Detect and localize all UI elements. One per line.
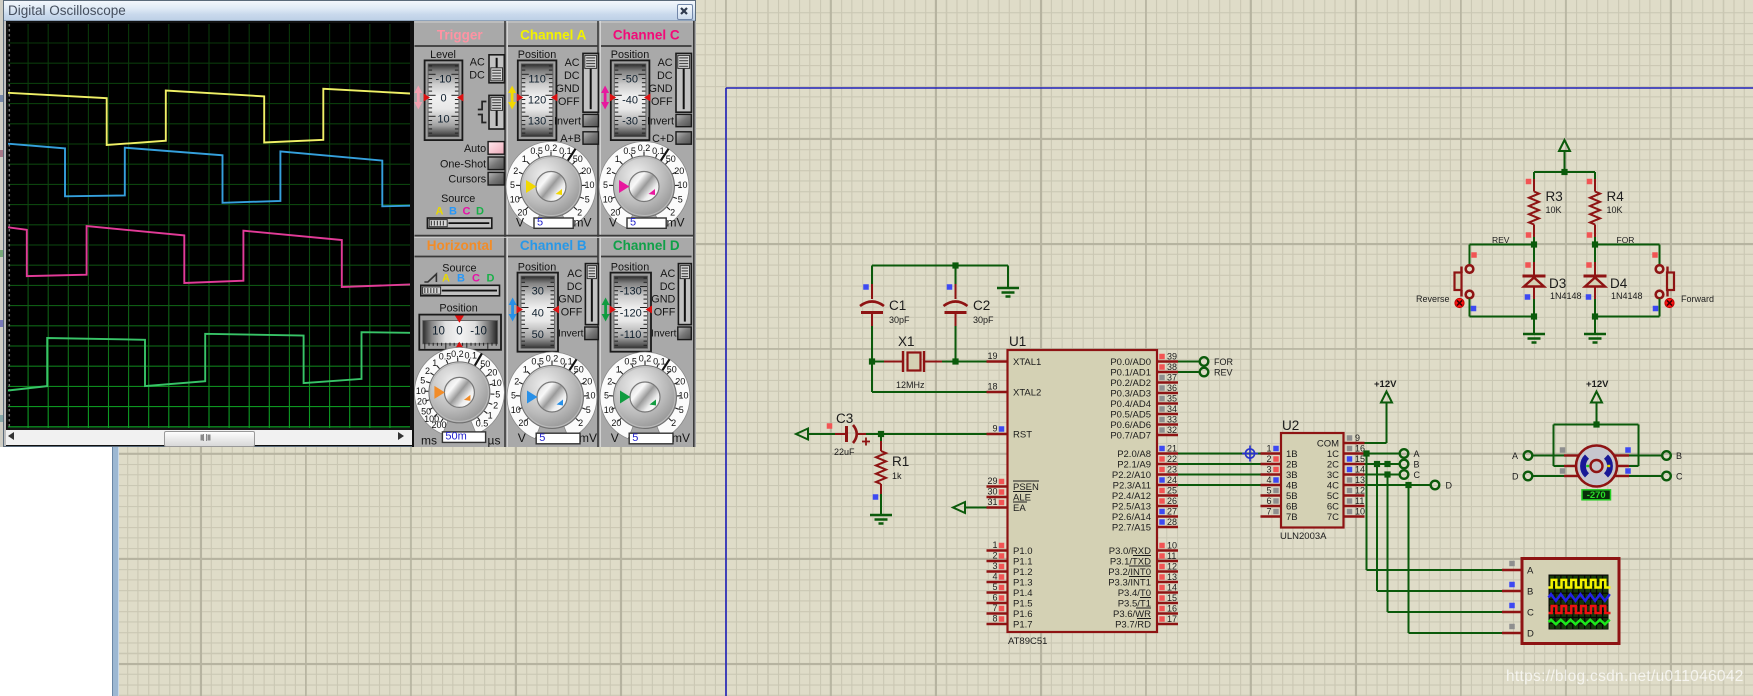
svg-text:14: 14 — [1355, 465, 1365, 475]
svg-text:13: 13 — [1167, 572, 1177, 582]
svg-text:7C: 7C — [1327, 512, 1339, 523]
svg-text:2: 2 — [1266, 454, 1271, 464]
capacitor C3 22uF — [827, 411, 870, 457]
power +12V (motor) — [1554, 379, 1639, 466]
U1 pin 2 P1.1 — [987, 551, 1033, 568]
svg-text:COM: COM — [1317, 439, 1339, 450]
svg-text:24: 24 — [1167, 475, 1177, 485]
svg-text:5: 5 — [992, 582, 997, 592]
svg-text:-120: -120 — [620, 307, 642, 319]
svg-text:D: D — [1527, 629, 1534, 640]
U2 pin 11 6C — [1327, 496, 1365, 513]
input terminal (EA arrow) — [953, 502, 965, 513]
svg-text:REV: REV — [1214, 368, 1233, 378]
wire Forward to FOR — [0, 0, 1, 1]
svg-text:P1.4: P1.4 — [1013, 588, 1033, 599]
svg-text:1: 1 — [488, 411, 493, 421]
input terminal (RST left arrow) — [796, 429, 808, 440]
terminal REV — [1200, 368, 1233, 378]
wire XTAL2 — [872, 362, 987, 393]
U2 pin 15 2C — [1327, 454, 1365, 471]
svg-text:EA: EA — [1013, 503, 1026, 514]
svg-text:10: 10 — [511, 405, 521, 415]
svg-text:20: 20 — [675, 376, 685, 386]
U1 pin 22 P2.1/A9 — [1117, 454, 1178, 471]
svg-text:A: A — [1414, 449, 1420, 459]
svg-text:20: 20 — [417, 397, 427, 407]
svg-text:Position: Position — [518, 49, 556, 61]
U1 pin 27 P2.6/A14 — [1112, 507, 1178, 524]
svg-text:XTAL2: XTAL2 — [1013, 388, 1041, 399]
wire C to graph — [1388, 475, 1503, 613]
svg-text:D3: D3 — [1549, 276, 1566, 291]
svg-text:10: 10 — [603, 195, 613, 205]
svg-text:0.5: 0.5 — [624, 356, 637, 366]
terminal D (motor) — [1512, 472, 1564, 482]
svg-text:AC: AC — [470, 57, 485, 69]
svg-text:5B: 5B — [1286, 491, 1298, 502]
svg-text:10: 10 — [432, 326, 445, 338]
svg-text:11: 11 — [1355, 496, 1364, 506]
svg-text:-10: -10 — [470, 326, 487, 338]
svg-text:2: 2 — [493, 401, 498, 411]
wire 4C to D — [1365, 482, 1431, 488]
U2 pin 5 5B — [1261, 486, 1298, 503]
svg-text:+12V: +12V — [1586, 379, 1609, 390]
svg-text:Source: Source — [441, 193, 475, 205]
svg-text:P1.5: P1.5 — [1013, 599, 1033, 610]
svg-text:+12V: +12V — [1374, 379, 1397, 390]
U1 pin 38 P0.1/AD1 — [1110, 362, 1178, 379]
svg-text:V: V — [611, 431, 619, 445]
svg-text:1: 1 — [992, 540, 997, 550]
svg-text:2: 2 — [606, 166, 611, 176]
svg-text:OFF: OFF — [654, 306, 676, 318]
svg-text:0.5: 0.5 — [531, 356, 544, 366]
U1 pin 21 P2.0/A8 — [1117, 444, 1178, 461]
wire FOR — [1178, 361, 1200, 363]
svg-text:15: 15 — [1167, 593, 1177, 603]
U1 pin 12 P3.2/INT0 — [1108, 562, 1178, 579]
svg-text:P0.3/AD3: P0.3/AD3 — [1110, 389, 1151, 400]
U1 pin 1 P1.0 — [987, 540, 1033, 557]
svg-text:12: 12 — [1355, 486, 1365, 496]
wire P2.3 to U2 4B — [1178, 484, 1261, 486]
svg-text:2: 2 — [578, 418, 583, 428]
svg-text:19: 19 — [987, 351, 997, 361]
svg-text:130: 130 — [528, 115, 546, 127]
U1 pin 14 P3.4/T0 — [1118, 583, 1178, 600]
svg-text:0.1: 0.1 — [653, 356, 666, 366]
svg-text:2B: 2B — [1286, 460, 1298, 471]
svg-text:P2.7/A15: P2.7/A15 — [1112, 523, 1151, 534]
svg-text:Channel B: Channel B — [520, 238, 587, 253]
svg-text:7: 7 — [1266, 507, 1271, 517]
svg-text:Invert: Invert — [647, 116, 674, 128]
U1 pin 29 PSEN — [987, 476, 1040, 493]
svg-text:5: 5 — [604, 391, 609, 401]
U1 pin 33 P0.6/AD6 — [1110, 415, 1178, 432]
svg-text:13: 13 — [1355, 475, 1365, 485]
U1 pin 32 P0.7/AD7 — [1110, 425, 1178, 442]
svg-text:R4: R4 — [1607, 189, 1625, 204]
svg-text:39: 39 — [1167, 352, 1177, 362]
svg-text:33: 33 — [1167, 415, 1177, 425]
svg-text:18: 18 — [987, 382, 997, 392]
svg-text:Invert: Invert — [554, 116, 581, 128]
svg-text:AC: AC — [658, 57, 673, 69]
svg-text:5: 5 — [1266, 486, 1271, 496]
ground (R1) — [870, 515, 892, 524]
svg-text:26: 26 — [1167, 496, 1177, 506]
svg-text:B: B — [457, 273, 465, 285]
svg-text:10: 10 — [510, 195, 520, 205]
wire P2.2 to U2 3B — [1178, 474, 1261, 476]
svg-text:10: 10 — [1355, 507, 1365, 517]
svg-text:11: 11 — [1167, 551, 1176, 561]
svg-text:1B: 1B — [1286, 449, 1298, 460]
svg-text:C: C — [472, 273, 480, 285]
svg-text:C: C — [1527, 608, 1534, 619]
U1 pin 6 P1.5 — [987, 593, 1033, 610]
diode D3 1N4148 — [1523, 245, 1582, 317]
svg-text:1N4148: 1N4148 — [1611, 291, 1643, 301]
svg-text:5: 5 — [632, 432, 638, 444]
svg-text:30: 30 — [532, 286, 544, 298]
svg-text:AC: AC — [565, 57, 580, 69]
svg-text:50: 50 — [421, 407, 431, 417]
oscilloscope screen — [6, 21, 412, 429]
svg-text:6: 6 — [1266, 496, 1271, 506]
U1 pin 15 P3.5/T1 — [1118, 593, 1178, 610]
svg-text:Invert: Invert — [651, 329, 677, 340]
motor MOTOR-STEPPER — [1560, 446, 1631, 487]
svg-text:P3.7/RD: P3.7/RD — [1115, 620, 1151, 631]
svg-text:P2.1/A9: P2.1/A9 — [1117, 460, 1151, 471]
oscilloscope component (4-channel graph) — [1502, 559, 1619, 644]
svg-text:D4: D4 — [1610, 276, 1628, 291]
svg-text:12MHz: 12MHz — [896, 380, 925, 390]
wire RST-left — [808, 433, 835, 435]
svg-text:GND: GND — [558, 294, 582, 306]
svg-text:23: 23 — [1167, 465, 1177, 475]
svg-text:5: 5 — [586, 405, 591, 415]
Digital Oscilloscope window — [0, 447, 113, 696]
svg-text:20: 20 — [674, 166, 684, 176]
svg-text:GND: GND — [556, 83, 580, 95]
svg-text:0.1: 0.1 — [559, 146, 572, 156]
svg-text:38: 38 — [1167, 362, 1177, 372]
U1 pin 30 ALE — [987, 487, 1033, 504]
svg-text:2: 2 — [514, 376, 519, 386]
wire XTAL1 — [956, 361, 988, 363]
svg-text:3: 3 — [1266, 465, 1271, 475]
svg-text:A: A — [442, 273, 450, 285]
U1 pin 17 P3.7/RD — [1115, 614, 1178, 631]
svg-text:5: 5 — [510, 180, 515, 190]
svg-text:10: 10 — [1167, 541, 1177, 551]
svg-text:A: A — [1512, 451, 1518, 461]
terminal D — [1431, 481, 1453, 491]
svg-text:DC: DC — [567, 281, 583, 293]
resistor R1 1k — [873, 434, 910, 515]
U1 pin 23 P2.2/A10 — [1112, 465, 1178, 482]
svg-text:5C: 5C — [1327, 491, 1339, 502]
svg-text:-110: -110 — [620, 329, 641, 341]
power +12V (U2 COM) — [1365, 379, 1398, 443]
U1 pin 8 P1.7 — [987, 614, 1033, 631]
svg-text:1C: 1C — [1327, 449, 1339, 460]
svg-text:37: 37 — [1167, 373, 1177, 383]
svg-text:C: C — [1676, 472, 1683, 482]
wire 3C to C — [1365, 471, 1400, 477]
svg-text:110: 110 — [528, 74, 546, 86]
U1 pin 36 P0.3/AD3 — [1110, 383, 1178, 400]
svg-text:21: 21 — [1167, 444, 1177, 454]
svg-text:27: 27 — [1167, 507, 1177, 517]
svg-text:12: 12 — [1167, 562, 1177, 572]
svg-text:C: C — [463, 206, 471, 218]
svg-text:Channel C: Channel C — [613, 28, 680, 43]
diode D4 1N4148 — [1584, 245, 1643, 317]
svg-text:V: V — [609, 216, 617, 230]
svg-text:ms: ms — [421, 434, 437, 448]
svg-text:B: B — [1676, 451, 1682, 461]
crystal X1 — [869, 334, 959, 390]
svg-text:P1.6: P1.6 — [1013, 609, 1033, 620]
svg-text:1: 1 — [615, 154, 620, 164]
capacitor C2 — [944, 266, 995, 362]
svg-text:4: 4 — [1266, 475, 1271, 485]
svg-text:5: 5 — [495, 389, 500, 399]
svg-text:P1.1: P1.1 — [1013, 557, 1033, 568]
svg-text:4B: 4B — [1286, 481, 1298, 492]
svg-text:2: 2 — [992, 551, 997, 561]
svg-text:AC: AC — [660, 268, 675, 280]
U1 pin 7 P1.6 — [987, 603, 1033, 620]
svg-text:P2.3/A11: P2.3/A11 — [1113, 481, 1151, 492]
svg-text:5: 5 — [678, 195, 683, 205]
U2 pin 4 4B — [1261, 475, 1298, 492]
svg-text:5: 5 — [539, 432, 545, 444]
svg-text:U2: U2 — [1282, 418, 1299, 433]
svg-text:Trigger: Trigger — [437, 28, 484, 43]
svg-text:1N4148: 1N4148 — [1550, 291, 1582, 301]
svg-text:10: 10 — [604, 405, 614, 415]
motor position display -270 — [1582, 490, 1611, 501]
wire REV node — [1470, 241, 1538, 247]
svg-text:RST: RST — [1013, 430, 1032, 441]
svg-text:R1: R1 — [892, 454, 909, 469]
U2 pin 16 1C — [1327, 444, 1365, 461]
svg-text:-130: -130 — [620, 286, 642, 298]
svg-text:Invert: Invert — [558, 329, 584, 340]
svg-text:10K: 10K — [1546, 205, 1562, 215]
svg-text:P0.7/AD7: P0.7/AD7 — [1110, 431, 1151, 442]
resistor R3 10K — [1526, 172, 1563, 245]
svg-text:28: 28 — [1167, 517, 1177, 527]
svg-text:P2.2/A10: P2.2/A10 — [1112, 470, 1151, 481]
svg-text:AC: AC — [567, 268, 582, 280]
svg-text:50: 50 — [532, 329, 544, 341]
svg-text:2: 2 — [513, 166, 518, 176]
svg-text:D: D — [1512, 472, 1519, 482]
svg-text:1: 1 — [522, 154, 527, 164]
svg-text:5: 5 — [585, 195, 590, 205]
svg-text:-270: -270 — [1587, 490, 1606, 501]
svg-text:DC: DC — [564, 70, 580, 82]
svg-text:35: 35 — [1167, 394, 1177, 404]
wire FOR ground rail — [1592, 313, 1660, 334]
svg-text:14: 14 — [1167, 583, 1177, 593]
svg-text:GND: GND — [649, 83, 673, 95]
U2 pin 12 5C — [1327, 486, 1365, 503]
svg-text:ULN2003A: ULN2003A — [1280, 531, 1327, 542]
svg-text:P2.0/A8: P2.0/A8 — [1117, 449, 1151, 460]
Channel D panel — [412, 21, 696, 447]
svg-text:FOR: FOR — [1214, 357, 1233, 367]
U1 pin 3 P1.2 — [987, 561, 1033, 578]
U1 pin 26 P2.5/A13 — [1112, 496, 1178, 513]
U1 pin 10 P3.0/RXD — [1109, 541, 1178, 558]
svg-text:9: 9 — [1355, 433, 1360, 443]
svg-text:C: C — [1414, 470, 1421, 480]
svg-text:V: V — [518, 431, 526, 445]
U2 pin 2 2B — [1261, 454, 1298, 471]
svg-text:Horizontal: Horizontal — [427, 238, 493, 253]
svg-text:20: 20 — [581, 166, 591, 176]
svg-text:9: 9 — [992, 424, 997, 434]
U1 pin 24 P2.3/A11 — [1113, 475, 1178, 492]
svg-text:22: 22 — [1167, 454, 1177, 464]
svg-text:10: 10 — [492, 378, 502, 388]
svg-text:P0.6/AD6: P0.6/AD6 — [1110, 420, 1151, 431]
svg-text:P0.5/AD5: P0.5/AD5 — [1110, 410, 1151, 421]
svg-text:OFF: OFF — [651, 96, 673, 108]
svg-text:OFF: OFF — [561, 306, 583, 318]
svg-text:B: B — [449, 206, 457, 218]
svg-text:0.1: 0.1 — [652, 146, 665, 156]
svg-text:Position: Position — [611, 49, 649, 61]
origin marker (crosshair) — [1242, 446, 1258, 462]
sheet border (blue) — [726, 88, 1753, 696]
svg-text:OFF: OFF — [558, 96, 580, 108]
U1 pin 31 EA — [987, 497, 1028, 514]
svg-text:7: 7 — [992, 603, 997, 613]
svg-text:1k: 1k — [892, 471, 902, 481]
svg-text:C2: C2 — [973, 298, 990, 313]
terminal FOR — [1200, 357, 1234, 367]
svg-text:4C: 4C — [1327, 481, 1339, 492]
button Reverse — [1416, 245, 1477, 317]
wire REV — [1178, 371, 1200, 373]
svg-text:Channel A: Channel A — [520, 28, 587, 43]
svg-text:1: 1 — [1266, 444, 1271, 454]
svg-text:3B: 3B — [1286, 470, 1298, 481]
svg-text:6B: 6B — [1286, 502, 1298, 513]
svg-text:30pF: 30pF — [973, 315, 994, 325]
terminal B — [1400, 460, 1420, 470]
svg-text:X1: X1 — [898, 334, 915, 349]
U1 pin 35 P0.4/AD4 — [1110, 394, 1178, 411]
wire 1C to A — [1363, 450, 1399, 456]
terminal A — [1400, 449, 1420, 459]
U2 pin 13 4C — [1327, 475, 1365, 492]
U2 pin 10 7C — [1327, 507, 1365, 524]
svg-text:0.5: 0.5 — [530, 146, 543, 156]
svg-text:U1: U1 — [1009, 334, 1026, 349]
svg-text:30: 30 — [987, 487, 997, 497]
motor common leads — [1564, 465, 1629, 467]
svg-text:P0.4/AD4: P0.4/AD4 — [1110, 399, 1151, 410]
svg-text:5: 5 — [679, 405, 684, 415]
svg-text:16: 16 — [1167, 604, 1177, 614]
svg-text:40: 40 — [532, 307, 544, 319]
wire RST — [866, 431, 987, 437]
svg-text:5: 5 — [420, 376, 425, 386]
svg-text:-10: -10 — [436, 74, 452, 86]
svg-text:6: 6 — [992, 593, 997, 603]
svg-text:2: 2 — [671, 418, 676, 428]
U1 pin 4 P1.3 — [987, 572, 1033, 589]
svg-text:5: 5 — [630, 217, 636, 229]
terminal B (motor) — [1629, 451, 1682, 461]
svg-text:P1.7: P1.7 — [1013, 620, 1033, 631]
svg-text:5: 5 — [603, 180, 608, 190]
svg-text:P2.5/A13: P2.5/A13 — [1112, 502, 1151, 513]
svg-text:µs: µs — [488, 434, 501, 448]
terminal A (motor) — [1512, 451, 1564, 461]
svg-text:5: 5 — [537, 217, 543, 229]
svg-text:22uF: 22uF — [834, 447, 855, 457]
svg-text:P2.6/A14: P2.6/A14 — [1112, 512, 1151, 523]
U2 pin 6 6B — [1261, 496, 1298, 513]
U1 pin 9 RST — [987, 424, 1033, 441]
svg-text:Reverse: Reverse — [1416, 294, 1450, 304]
U1 pin 18 XTAL2 — [987, 382, 1042, 399]
svg-text:P0.2/AD2: P0.2/AD2 — [1110, 378, 1151, 389]
U1 pin 11 P3.1/TXD — [1110, 551, 1178, 568]
svg-text:10: 10 — [437, 114, 449, 126]
U1 pin 19 XTAL1 — [987, 351, 1042, 368]
terminal C — [1400, 470, 1421, 480]
svg-text:D: D — [476, 206, 484, 218]
wire D to graph — [1409, 485, 1503, 633]
svg-text:mV: mV — [667, 216, 685, 230]
svg-text:25: 25 — [1167, 486, 1177, 496]
horizontal scrollbar — [6, 429, 412, 446]
svg-text:-30: -30 — [622, 115, 638, 127]
svg-text:0.5: 0.5 — [439, 352, 452, 362]
svg-text:120: 120 — [528, 95, 546, 107]
svg-text:P0.0/AD0: P0.0/AD0 — [1110, 357, 1151, 368]
svg-text:0.1: 0.1 — [560, 356, 573, 366]
svg-text:1: 1 — [523, 364, 528, 374]
svg-text:10K: 10K — [1607, 205, 1623, 215]
ground (D4) — [1584, 334, 1606, 343]
svg-text:P0.1/AD1: P0.1/AD1 — [1110, 368, 1151, 379]
wire EA — [965, 507, 987, 509]
svg-text:DC: DC — [469, 70, 485, 82]
wire Reverse to REV — [0, 0, 1, 1]
U1 pin 25 P2.4/A12 — [1112, 486, 1178, 503]
wire REV ground rail — [1470, 313, 1538, 334]
svg-text:P1.3: P1.3 — [1013, 578, 1033, 589]
U2 pin 9 COM — [1317, 433, 1365, 450]
U1 pin 5 P1.4 — [987, 582, 1033, 599]
svg-text:DC: DC — [657, 70, 673, 82]
svg-text:32: 32 — [1167, 425, 1177, 435]
